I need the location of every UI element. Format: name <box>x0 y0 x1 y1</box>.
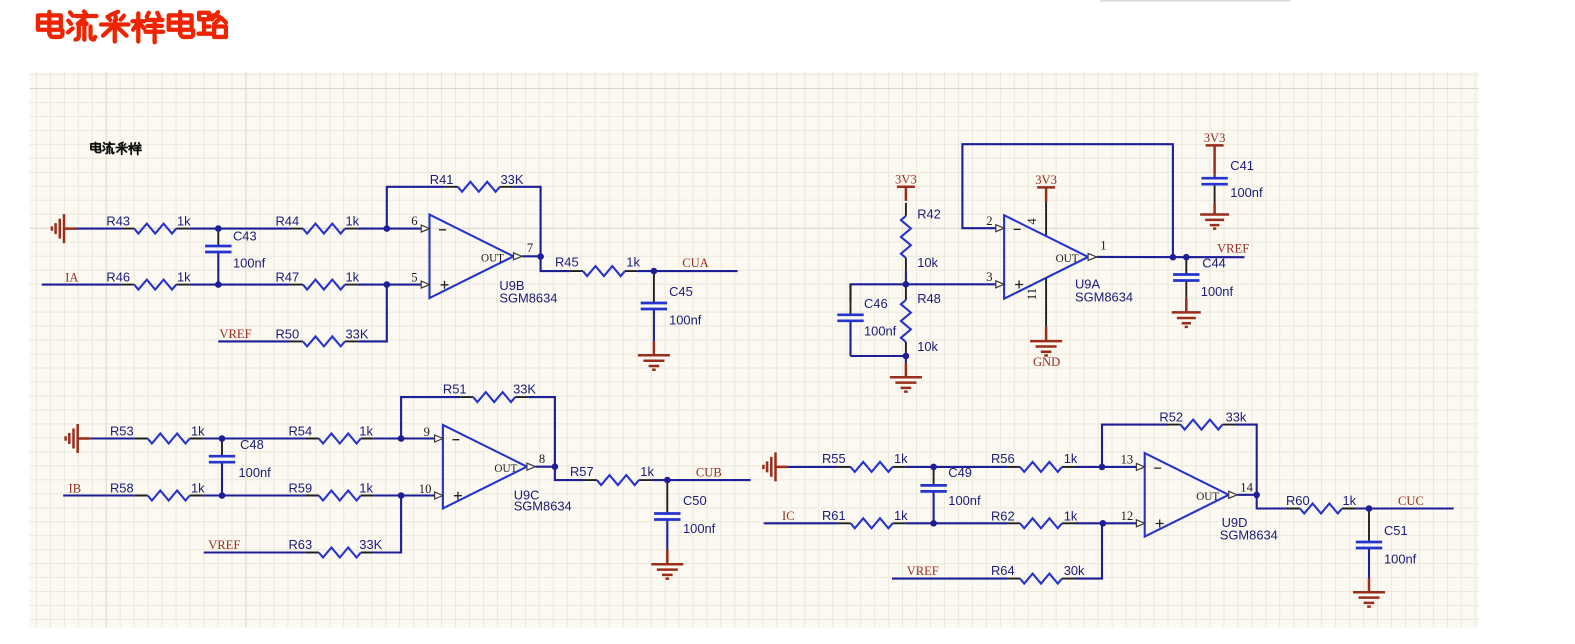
svg-text:R41: R41 <box>430 172 454 187</box>
svg-text:100nf: 100nf <box>683 521 716 536</box>
svg-text:R61: R61 <box>822 508 846 523</box>
svg-text:3V3: 3V3 <box>1035 173 1057 187</box>
svg-text:R54: R54 <box>289 424 313 439</box>
svg-text:11: 11 <box>1025 288 1039 300</box>
svg-text:1k: 1k <box>640 464 654 479</box>
svg-text:GND: GND <box>1033 355 1060 369</box>
svg-text:100nf: 100nf <box>233 256 266 271</box>
svg-text:100nf: 100nf <box>1230 185 1263 200</box>
svg-text:R47: R47 <box>276 270 300 285</box>
svg-text:R43: R43 <box>106 214 130 229</box>
svg-text:R62: R62 <box>991 508 1015 523</box>
svg-text:14: 14 <box>1240 480 1253 494</box>
svg-text:R64: R64 <box>991 563 1015 578</box>
svg-text:100nf: 100nf <box>1201 284 1234 299</box>
svg-text:C48: C48 <box>240 437 264 452</box>
svg-text:33k: 33k <box>1226 409 1247 424</box>
svg-text:C44: C44 <box>1202 256 1226 271</box>
svg-text:1k: 1k <box>626 255 640 270</box>
svg-text:1k: 1k <box>894 451 908 466</box>
svg-text:SGM8634: SGM8634 <box>514 499 572 514</box>
svg-text:1k: 1k <box>894 508 908 523</box>
svg-text:SGM8634: SGM8634 <box>1220 527 1278 542</box>
svg-text:30k: 30k <box>1064 563 1085 578</box>
svg-text:OUT: OUT <box>1196 491 1219 503</box>
svg-text:C50: C50 <box>683 493 707 508</box>
svg-text:4: 4 <box>1025 218 1039 225</box>
svg-text:CUC: CUC <box>1398 494 1424 508</box>
svg-text:IA: IA <box>65 271 78 285</box>
svg-text:R45: R45 <box>555 255 579 270</box>
svg-text:1k: 1k <box>359 424 373 439</box>
svg-text:IB: IB <box>69 482 82 496</box>
svg-text:R58: R58 <box>110 481 134 496</box>
svg-text:1k: 1k <box>359 481 373 496</box>
svg-text:33K: 33K <box>346 326 369 341</box>
svg-text:OUT: OUT <box>494 463 517 475</box>
svg-text:R57: R57 <box>570 464 594 479</box>
svg-text:R56: R56 <box>991 451 1015 466</box>
svg-text:C49: C49 <box>948 465 972 480</box>
svg-text:1k: 1k <box>1064 451 1078 466</box>
svg-text:8: 8 <box>539 452 545 466</box>
svg-text:9: 9 <box>424 425 430 439</box>
svg-text:VREF: VREF <box>1217 242 1249 256</box>
svg-text:100nf: 100nf <box>239 465 272 480</box>
svg-text:C45: C45 <box>669 284 693 299</box>
svg-text:VREF: VREF <box>208 538 240 552</box>
svg-text:100nf: 100nf <box>1384 552 1417 567</box>
svg-text:7: 7 <box>527 241 533 255</box>
svg-text:C46: C46 <box>864 296 888 311</box>
svg-text:1k: 1k <box>191 424 205 439</box>
svg-text:1k: 1k <box>346 270 360 285</box>
svg-text:C43: C43 <box>233 229 257 244</box>
svg-text:1k: 1k <box>346 214 360 229</box>
svg-text:R44: R44 <box>276 214 300 229</box>
svg-text:1k: 1k <box>1064 508 1078 523</box>
svg-text:R52: R52 <box>1159 409 1183 424</box>
svg-text:1: 1 <box>1100 238 1106 252</box>
svg-text:R63: R63 <box>289 537 313 552</box>
svg-text:100nf: 100nf <box>864 324 897 339</box>
svg-text:100nf: 100nf <box>948 493 981 508</box>
svg-text:3V3: 3V3 <box>895 173 917 187</box>
svg-text:C41: C41 <box>1230 158 1254 173</box>
svg-text:R46: R46 <box>106 270 130 285</box>
svg-text:SGM8634: SGM8634 <box>1075 290 1133 305</box>
svg-text:33K: 33K <box>501 172 524 187</box>
svg-text:VREF: VREF <box>907 564 939 578</box>
svg-text:1k: 1k <box>191 481 205 496</box>
svg-text:33K: 33K <box>513 382 536 397</box>
svg-text:33K: 33K <box>359 537 382 552</box>
svg-text:CUA: CUA <box>682 256 709 270</box>
svg-text:10k: 10k <box>917 255 938 270</box>
svg-text:VREF: VREF <box>219 327 251 341</box>
svg-text:R51: R51 <box>443 382 467 397</box>
svg-text:12: 12 <box>1121 509 1134 523</box>
svg-text:R53: R53 <box>110 424 134 439</box>
svg-text:1k: 1k <box>177 214 191 229</box>
svg-text:2: 2 <box>986 214 992 228</box>
svg-text:5: 5 <box>411 271 417 285</box>
svg-text:1k: 1k <box>177 270 191 285</box>
svg-text:3V3: 3V3 <box>1204 131 1226 145</box>
svg-text:1k: 1k <box>1343 493 1357 508</box>
svg-text:SGM8634: SGM8634 <box>499 291 557 306</box>
svg-text:10: 10 <box>419 482 432 496</box>
svg-text:R48: R48 <box>917 291 941 306</box>
svg-text:10k: 10k <box>917 339 938 354</box>
svg-text:CUB: CUB <box>696 466 722 480</box>
svg-text:6: 6 <box>411 214 417 228</box>
svg-text:R42: R42 <box>917 206 941 221</box>
svg-text:3: 3 <box>986 270 992 284</box>
svg-text:C51: C51 <box>1384 523 1408 538</box>
svg-text:13: 13 <box>1121 453 1134 467</box>
svg-text:OUT: OUT <box>481 253 504 265</box>
svg-text:OUT: OUT <box>1056 253 1079 265</box>
svg-text:R60: R60 <box>1286 493 1310 508</box>
svg-text:100nf: 100nf <box>669 312 702 327</box>
svg-text:IC: IC <box>782 509 795 523</box>
svg-text:R59: R59 <box>289 481 313 496</box>
svg-text:R55: R55 <box>822 451 846 466</box>
svg-text:R50: R50 <box>276 326 300 341</box>
